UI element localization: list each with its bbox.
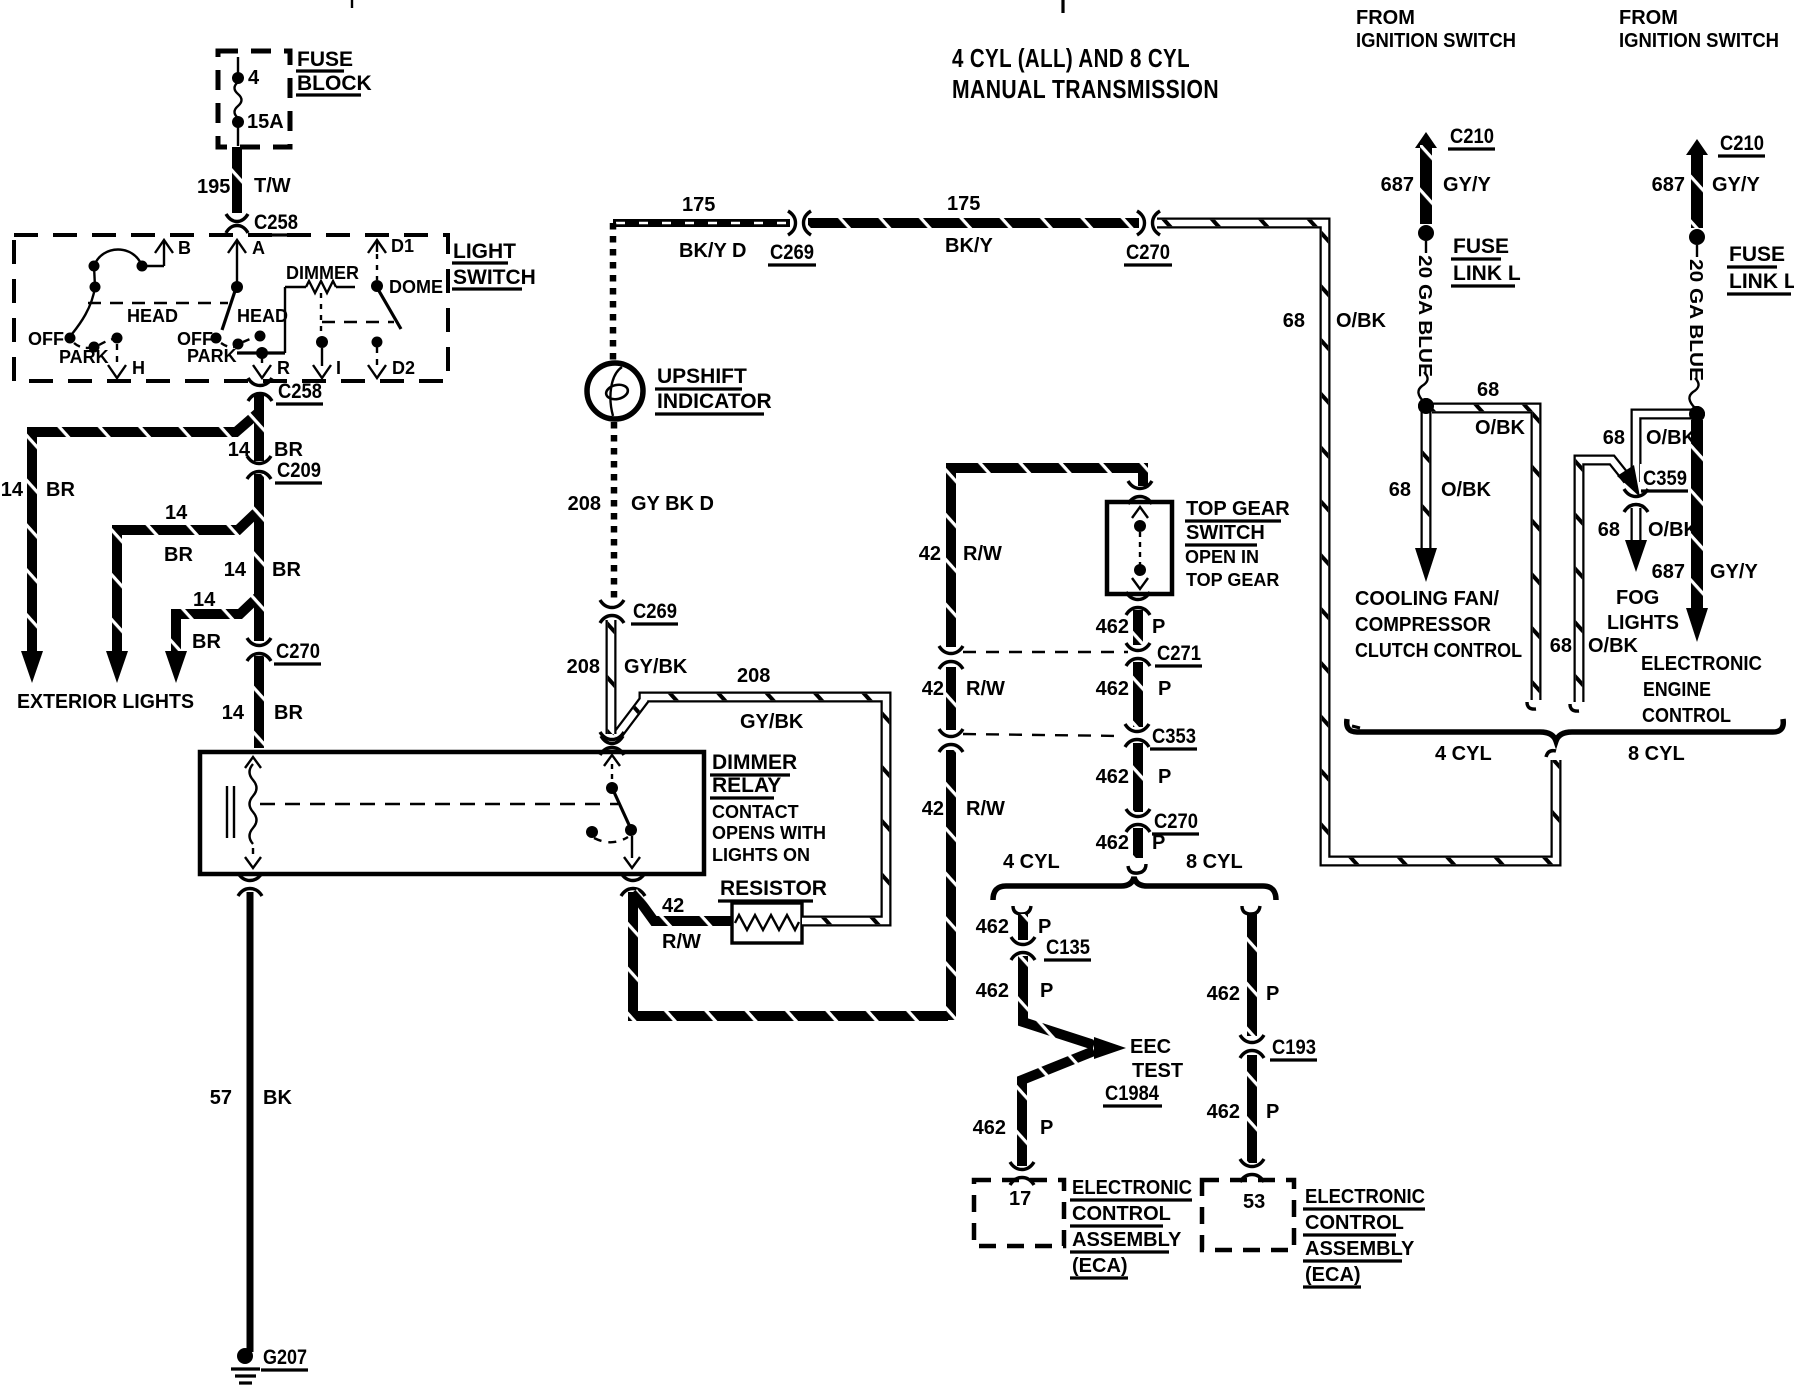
wire 68 O/BK long loop — [1157, 223, 1556, 861]
svg-text:RELAY: RELAY — [712, 774, 781, 797]
svg-text:D2: D2 — [392, 358, 415, 378]
svg-text:PARK: PARK — [187, 346, 237, 366]
splice dot right — [1689, 229, 1705, 245]
wire 687 GY/Y left — [1420, 145, 1432, 224]
svg-text:IGNITION SWITCH: IGNITION SWITCH — [1619, 30, 1779, 52]
svg-text:ASSEMBLY: ASSEMBLY — [1305, 1238, 1415, 1260]
svg-text:BR: BR — [274, 702, 303, 724]
svg-text:CLUTCH CONTROL: CLUTCH CONTROL — [1355, 640, 1522, 662]
svg-text:C359: C359 — [1643, 467, 1687, 490]
light switch box — [14, 235, 448, 381]
wire 14 BR main segment 2 — [254, 474, 264, 641]
connector C210 right arrow — [1686, 132, 1765, 156]
svg-text:O/BK: O/BK — [1646, 427, 1697, 449]
svg-text:C258: C258 — [278, 380, 322, 403]
svg-text:C258: C258 — [254, 211, 298, 234]
svg-text:20 GA BLUE: 20 GA BLUE — [1415, 255, 1435, 377]
wire 195 T/W — [232, 147, 242, 213]
svg-text:15A: 15A — [247, 111, 284, 133]
svg-text:BK/Y D: BK/Y D — [679, 240, 746, 262]
svg-text:462: 462 — [976, 916, 1009, 938]
svg-text:FOG: FOG — [1616, 587, 1659, 609]
splice dot left lower — [1418, 398, 1434, 414]
wire 14 BR main segment 3 — [254, 656, 264, 748]
fog lights caption — [1607, 587, 1679, 634]
terminal A arrow — [228, 238, 265, 287]
wire 208 GY BK D dotted upper — [610, 223, 617, 360]
wire 175 BK/Y — [808, 218, 1139, 228]
svg-text:ASSEMBLY: ASSEMBLY — [1072, 1229, 1182, 1251]
electronic engine control caption — [1641, 653, 1762, 727]
exterior lights arrow 3 — [165, 651, 187, 683]
svg-text:LIGHT: LIGHT — [453, 240, 516, 263]
svg-text:BR: BR — [46, 479, 75, 501]
dimmer wiper to I — [313, 293, 341, 378]
svg-text:462: 462 — [1096, 678, 1129, 700]
svg-text:14: 14 — [165, 502, 188, 524]
ECA box 17 — [974, 1180, 1064, 1246]
wire 42 R/W up leg — [946, 750, 956, 1020]
svg-text:T/W: T/W — [254, 175, 291, 197]
wire 14 BR main segment 1 — [254, 395, 264, 461]
svg-text:H: H — [132, 358, 145, 378]
svg-text:P: P — [1040, 1117, 1053, 1139]
svg-text:DIMMER: DIMMER — [712, 751, 797, 774]
connector C210 left arrow — [1415, 125, 1495, 149]
svg-text:DIMMER: DIMMER — [286, 263, 359, 283]
svg-text:P: P — [1038, 916, 1051, 938]
top gear switch label — [1185, 498, 1290, 590]
svg-text:462: 462 — [973, 1117, 1006, 1139]
svg-text:P: P — [1152, 616, 1165, 638]
wire 462 P seg4 — [1133, 828, 1143, 858]
svg-text:175: 175 — [682, 194, 715, 216]
A pole switch blade — [177, 281, 288, 366]
wire 462 P seg3 — [1133, 743, 1143, 812]
svg-text:68: 68 — [1550, 635, 1572, 657]
svg-text:MANUAL TRANSMISSION: MANUAL TRANSMISSION — [952, 74, 1219, 104]
relay coil input arrow — [245, 757, 261, 868]
wire 462 P 8cyl seg b — [1247, 1055, 1257, 1163]
svg-text:68: 68 — [1603, 427, 1625, 449]
connector into ECA 17 — [1010, 1162, 1034, 1185]
fuse link L left — [1415, 241, 1435, 402]
svg-text:HEAD: HEAD — [127, 306, 178, 326]
wire 42 R/W relay to resistor — [633, 892, 732, 921]
svg-text:BR: BR — [274, 439, 303, 461]
svg-text:C193: C193 — [1272, 1036, 1316, 1059]
svg-text:42: 42 — [922, 798, 944, 820]
stray scan tick top — [351, 0, 353, 8]
wire 462 P 4cyl seg a — [1018, 914, 1028, 940]
svg-text:CONTROL: CONTROL — [1642, 705, 1731, 727]
wire 462 P 4cyl to EEC TEST — [1023, 956, 1094, 1045]
svg-text:FROM: FROM — [1619, 7, 1678, 29]
svg-text:R/W: R/W — [662, 931, 701, 953]
svg-text:BLOCK: BLOCK — [297, 72, 372, 95]
svg-text:C210: C210 — [1720, 132, 1764, 155]
svg-text:14: 14 — [1, 479, 24, 501]
wire 68 O/BK to cooling fan — [1415, 412, 1437, 582]
svg-text:462: 462 — [1096, 832, 1129, 854]
light switch label — [452, 240, 536, 289]
connector C359 — [1624, 464, 1698, 512]
from ignition switch label 2 — [1619, 7, 1779, 52]
svg-text:BK/Y: BK/Y — [945, 235, 993, 257]
svg-text:COOLING FAN/: COOLING FAN/ — [1355, 588, 1499, 610]
wire 68 O/BK right branch of splice — [1432, 408, 1536, 709]
svg-text:P: P — [1266, 1101, 1279, 1123]
D1 terminal arrow — [368, 236, 414, 280]
svg-text:C135: C135 — [1046, 936, 1090, 959]
dimmer relay box — [200, 752, 704, 874]
connector below relay left — [238, 873, 262, 896]
svg-text:B: B — [178, 238, 191, 258]
svg-text:BR: BR — [272, 559, 301, 581]
svg-text:DOME: DOME — [389, 277, 443, 297]
svg-text:GY/Y: GY/Y — [1712, 174, 1760, 196]
top gear switch box — [1107, 502, 1172, 594]
relay contact — [586, 736, 640, 868]
svg-text:RESISTOR: RESISTOR — [720, 877, 827, 900]
from ignition switch label 1 — [1356, 7, 1516, 52]
svg-text:42: 42 — [662, 895, 684, 917]
svg-text:C270: C270 — [276, 640, 320, 663]
upshift indicator label — [655, 365, 772, 414]
svg-text:R: R — [277, 358, 290, 378]
terminal B arrow — [155, 238, 191, 266]
wire 175 BK/Y D horizontal — [613, 219, 790, 227]
svg-text:462: 462 — [976, 980, 1009, 1002]
svg-text:68: 68 — [1598, 519, 1620, 541]
svg-text:O/BK: O/BK — [1475, 417, 1526, 439]
svg-text:(ECA): (ECA) — [1072, 1255, 1128, 1277]
svg-text:ELECTRONIC: ELECTRONIC — [1072, 1177, 1192, 1199]
wire 57 BK — [247, 892, 254, 1352]
svg-text:EXTERIOR LIGHTS: EXTERIOR LIGHTS — [17, 691, 194, 713]
DOME contact and blade — [371, 277, 443, 329]
top gear switch contacts — [1132, 507, 1148, 589]
title — [952, 43, 1219, 104]
svg-text:4 CYL: 4 CYL — [1435, 743, 1492, 765]
connector C271 — [1126, 642, 1202, 666]
svg-text:208: 208 — [737, 665, 770, 687]
svg-text:8 CYL: 8 CYL — [1186, 851, 1243, 873]
wire 208 GY/BK loop — [616, 697, 886, 921]
svg-text:C210: C210 — [1450, 125, 1494, 148]
fuse block label — [296, 48, 372, 95]
wire branch 3 — [176, 596, 259, 651]
brace middle split — [993, 877, 1276, 900]
svg-text:C271: C271 — [1157, 642, 1201, 665]
svg-text:R/W: R/W — [966, 678, 1005, 700]
svg-text:195: 195 — [197, 176, 230, 198]
svg-text:4: 4 — [248, 67, 260, 89]
svg-text:CONTROL: CONTROL — [1305, 1212, 1404, 1234]
resistor label — [718, 877, 827, 901]
resistor — [732, 903, 802, 943]
ECA 53 label — [1303, 1186, 1425, 1287]
connector C269 lower — [600, 600, 678, 624]
connector C270 mid — [1126, 809, 1199, 834]
D2 terminal arrow — [368, 337, 415, 379]
svg-text:208: 208 — [568, 493, 601, 515]
svg-text:FUSE: FUSE — [297, 48, 353, 71]
dimmer rheostat — [285, 263, 359, 353]
svg-text:GY BK D: GY BK D — [631, 493, 714, 515]
svg-text:LIGHTS ON: LIGHTS ON — [712, 845, 810, 865]
svg-text:O/BK: O/BK — [1588, 635, 1639, 657]
connector C270 left — [247, 638, 321, 664]
wire 687 GY/Y right lower — [1686, 420, 1708, 642]
svg-text:14: 14 — [222, 702, 245, 724]
svg-text:687: 687 — [1381, 174, 1414, 196]
svg-text:ENGINE: ENGINE — [1643, 679, 1711, 701]
connector break on 42 leg upper — [939, 646, 963, 752]
svg-text:68: 68 — [1477, 379, 1499, 401]
svg-text:42: 42 — [922, 678, 944, 700]
svg-text:(ECA): (ECA) — [1305, 1264, 1361, 1286]
brace right split — [1347, 719, 1784, 741]
svg-text:LINK L: LINK L — [1729, 270, 1794, 293]
svg-text:CONTROL: CONTROL — [1072, 1203, 1171, 1225]
svg-text:TEST: TEST — [1132, 1060, 1183, 1082]
svg-text:C269: C269 — [633, 600, 677, 623]
svg-text:53: 53 — [1243, 1191, 1265, 1213]
svg-text:462: 462 — [1096, 616, 1129, 638]
svg-text:OPEN IN: OPEN IN — [1185, 547, 1259, 567]
4cyl branch top curl — [1013, 906, 1031, 914]
svg-text:17: 17 — [1009, 1188, 1031, 1210]
connector below switch — [1126, 592, 1150, 615]
svg-text:R/W: R/W — [963, 543, 1002, 565]
svg-text:462: 462 — [1096, 766, 1129, 788]
svg-text:14: 14 — [224, 559, 247, 581]
svg-text:462: 462 — [1207, 1101, 1240, 1123]
svg-text:FUSE: FUSE — [1729, 243, 1785, 266]
wire end curl at brace — [1128, 864, 1146, 873]
svg-text:LIGHTS: LIGHTS — [1607, 612, 1679, 634]
svg-text:ELECTRONIC: ELECTRONIC — [1641, 653, 1762, 675]
svg-text:IGNITION SWITCH: IGNITION SWITCH — [1356, 30, 1516, 52]
svg-text:4 CYL (ALL) AND 8 CYL: 4 CYL (ALL) AND 8 CYL — [952, 43, 1190, 73]
dimmer relay label — [710, 751, 826, 865]
svg-text:687: 687 — [1652, 174, 1685, 196]
svg-text:57: 57 — [210, 1087, 232, 1109]
svg-text:P: P — [1266, 983, 1279, 1005]
EEC test arrow — [1094, 1037, 1126, 1059]
dashed tie lines to 462 chain — [963, 651, 1128, 653]
ground G207 — [231, 1346, 308, 1383]
connector into relay contact — [600, 732, 624, 755]
wire 68 O/BK from 8cyl brace — [1570, 460, 1640, 711]
svg-text:C1984: C1984 — [1105, 1082, 1159, 1105]
svg-text:20 GA BLUE: 20 GA BLUE — [1686, 259, 1706, 381]
dashed link line left — [88, 302, 228, 304]
wire 687 GY/Y right upper — [1691, 152, 1703, 228]
connector C258 bottom — [248, 378, 323, 404]
svg-text:4 CYL: 4 CYL — [1003, 851, 1060, 873]
svg-text:PARK: PARK — [59, 347, 109, 367]
fuse link L label right — [1727, 243, 1794, 294]
splice dot right lower — [1689, 406, 1705, 422]
wire 462 P seg2 — [1133, 662, 1143, 727]
svg-text:O/BK: O/BK — [1441, 479, 1492, 501]
svg-text:D1: D1 — [391, 236, 414, 256]
svg-text:OPENS WITH: OPENS WITH — [712, 823, 826, 843]
tiny mark left of brace — [1352, 726, 1360, 728]
svg-text:P: P — [1040, 980, 1053, 1002]
svg-text:O/BK: O/BK — [1336, 310, 1387, 332]
fuse F4 15A — [232, 57, 284, 146]
connector below relay right — [621, 873, 645, 896]
connector C209 — [247, 456, 322, 483]
connector C270 top — [1124, 211, 1172, 265]
wire 462 P 4cyl from EEC TEST down — [1022, 1051, 1094, 1166]
svg-text:G207: G207 — [263, 1346, 307, 1369]
svg-text:OFF: OFF — [28, 329, 64, 349]
svg-text:GY/Y: GY/Y — [1710, 561, 1758, 583]
svg-text:LINK L: LINK L — [1453, 262, 1521, 285]
relay link dashed — [260, 803, 618, 805]
svg-text:C270: C270 — [1154, 810, 1198, 833]
wire B to off contact — [72, 250, 164, 335]
connector C135 — [1011, 936, 1091, 960]
connector into ECA 53 — [1240, 1159, 1264, 1182]
fuse block box — [218, 51, 290, 147]
svg-text:HEAD: HEAD — [237, 306, 288, 326]
svg-text:BR: BR — [164, 544, 193, 566]
stray scan tick top middle — [1061, 0, 1064, 13]
PARK bus line — [237, 347, 285, 359]
wire 462 P seg1 — [1133, 610, 1143, 645]
svg-text:O/BK: O/BK — [1648, 519, 1699, 541]
connector C258 top — [226, 211, 298, 235]
relay coil core — [227, 786, 234, 838]
svg-text:ELECTRONIC: ELECTRONIC — [1305, 1186, 1425, 1208]
svg-text:R/W: R/W — [966, 798, 1005, 820]
ECA 17 label — [1070, 1177, 1192, 1278]
wire branch 2 — [117, 510, 259, 651]
svg-text:175: 175 — [947, 193, 980, 215]
cooling fan caption — [1355, 588, 1522, 662]
connector C193 — [1240, 1035, 1317, 1060]
svg-text:COMPRESSOR: COMPRESSOR — [1355, 614, 1492, 636]
svg-text:UPSHIFT: UPSHIFT — [657, 365, 747, 388]
svg-text:EEC: EEC — [1130, 1036, 1171, 1058]
svg-text:P: P — [1158, 766, 1171, 788]
svg-text:I: I — [336, 358, 341, 378]
svg-text:68: 68 — [1283, 310, 1305, 332]
svg-text:SWITCH: SWITCH — [453, 266, 536, 289]
OFF contact left pole — [28, 329, 123, 367]
ECA box 53 — [1202, 1180, 1294, 1250]
wire 42 R/W relay down and right — [633, 892, 948, 1016]
svg-text:C269: C269 — [770, 241, 814, 264]
exterior lights arrow 2 — [106, 651, 128, 683]
svg-text:GY/BK: GY/BK — [624, 656, 688, 678]
svg-text:68: 68 — [1389, 479, 1411, 501]
fuse link L right — [1686, 245, 1706, 408]
svg-text:A: A — [252, 238, 265, 258]
svg-text:208: 208 — [567, 656, 600, 678]
connector C269 top — [768, 211, 816, 265]
svg-text:SWITCH: SWITCH — [1186, 522, 1265, 544]
8cyl branch top curl — [1242, 906, 1260, 914]
splice dot left — [1418, 225, 1434, 241]
wire branch 1 to exterior lights — [32, 412, 259, 651]
svg-text:GY/Y: GY/Y — [1443, 174, 1491, 196]
upshift indicator — [587, 363, 643, 419]
svg-text:P: P — [1152, 832, 1165, 854]
svg-text:462: 462 — [1207, 983, 1240, 1005]
svg-text:CONTACT: CONTACT — [712, 802, 799, 822]
svg-text:FUSE: FUSE — [1453, 235, 1509, 258]
svg-text:FROM: FROM — [1356, 7, 1415, 29]
wire 68 O/BK fog feed — [1636, 414, 1692, 482]
svg-text:42: 42 — [919, 543, 941, 565]
exterior lights arrow 1 — [21, 651, 43, 683]
wire 68 O/BK to fog lights — [1625, 508, 1647, 572]
svg-text:GY/BK: GY/BK — [740, 711, 804, 733]
svg-text:C270: C270 — [1126, 241, 1170, 264]
wire 208 GY BK D dotted lower — [611, 422, 618, 598]
fuse link L label left — [1451, 235, 1521, 286]
svg-text:C209: C209 — [277, 459, 321, 482]
svg-text:P: P — [1158, 678, 1171, 700]
wire 208 GY/BK into relay — [606, 620, 617, 734]
wire 462 P 8cyl seg a — [1247, 914, 1257, 1036]
connector into top gear switch — [1128, 481, 1152, 504]
connector C353 — [1125, 724, 1197, 749]
svg-text:8 CYL: 8 CYL — [1628, 743, 1685, 765]
H terminal arrow — [108, 344, 145, 378]
dashed link wiper to dome blade — [322, 321, 394, 323]
svg-text:TOP GEAR: TOP GEAR — [1186, 498, 1290, 520]
svg-text:14: 14 — [193, 589, 216, 611]
svg-text:687: 687 — [1652, 561, 1685, 583]
EEC test label — [1103, 1036, 1183, 1106]
svg-text:INDICATOR: INDICATOR — [657, 390, 772, 413]
svg-text:C353: C353 — [1152, 725, 1196, 748]
svg-text:TOP GEAR: TOP GEAR — [1186, 570, 1279, 590]
svg-text:BK: BK — [263, 1087, 292, 1109]
svg-text:BR: BR — [192, 631, 221, 653]
R terminal arrow — [253, 357, 290, 378]
